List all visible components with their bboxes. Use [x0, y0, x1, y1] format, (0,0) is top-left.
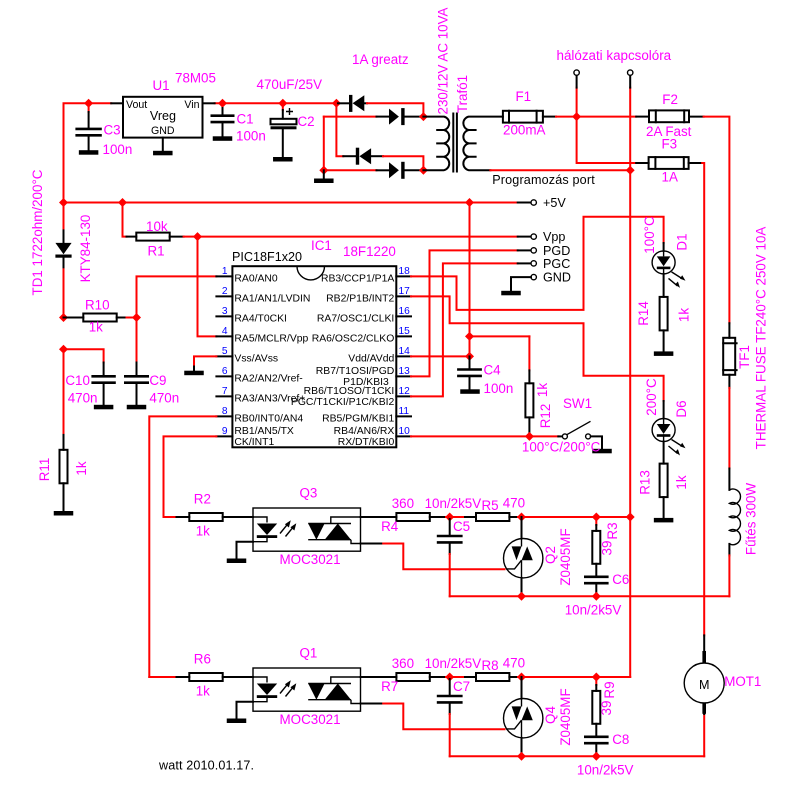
svg-text:R13: R13: [638, 470, 653, 495]
svg-text:RA1/AN1/LVDIN: RA1/AN1/LVDIN: [234, 293, 310, 304]
svg-text:11: 11: [399, 406, 410, 417]
wire R1 to Vpp terminal: [198, 236, 518, 238]
svg-text:RB5/PGM/KBI1: RB5/PGM/KBI1: [322, 413, 394, 424]
wire F1 output to junction: [556, 116, 577, 118]
junction C8 bottom: [592, 752, 601, 761]
resistor R6 1k: [149, 673, 253, 681]
resistor R12 1k: [525, 336, 533, 436]
junction C5 node: [445, 513, 454, 522]
ground for bridge: [314, 170, 334, 183]
junction bridge ground node: [319, 166, 328, 175]
svg-text:RA2/AN2/Vref-: RA2/AN2/Vref-: [234, 373, 302, 384]
svg-text:14: 14: [399, 346, 411, 357]
microcontroller IC1 PIC18F1220: [216, 250, 411, 448]
wire transformer primary bottom to mains node: [490, 169, 630, 171]
resistor R14 1k: [660, 274, 668, 352]
svg-text:1k: 1k: [535, 383, 550, 397]
svg-text:C2: C2: [298, 114, 315, 129]
svg-text:1k: 1k: [196, 684, 210, 699]
svg-text:D1: D1: [675, 233, 690, 250]
diode D5 of bridge (bottom row, anode left): [324, 162, 424, 179]
svg-text:RA0/AN0: RA0/AN0: [234, 273, 278, 284]
svg-text:13: 13: [399, 366, 411, 377]
svg-text:+5V: +5V: [543, 196, 566, 210]
svg-text:39: 39: [600, 541, 615, 556]
wire TF1 to heater coil: [728, 388, 730, 469]
svg-text:470: 470: [503, 656, 525, 671]
wire PGD terminal stub: [518, 249, 531, 251]
resistor R10 1k: [64, 314, 137, 322]
junction R1 branch: [118, 198, 127, 207]
svg-text:R2: R2: [194, 491, 211, 506]
junction F1 output node: [572, 112, 581, 121]
svg-text:470n: 470n: [68, 390, 98, 405]
svg-text:18F1220: 18F1220: [343, 244, 396, 259]
svg-text:18: 18: [399, 266, 411, 277]
svg-text:Z0405MF: Z0405MF: [558, 528, 573, 585]
resistor R7 360: [361, 673, 450, 681]
electrolytic capacitor C2: [271, 103, 297, 157]
terminal +5V: [518, 196, 567, 210]
ground for C3: [79, 150, 99, 155]
fuse F2: [636, 110, 703, 122]
fuse F1: [503, 111, 556, 123]
wire mains vertical down: [629, 170, 631, 677]
svg-text:TF1: TF1: [737, 345, 752, 369]
wire to SW1: [529, 435, 558, 437]
svg-text:R4: R4: [381, 519, 399, 534]
svg-text:1k: 1k: [89, 320, 103, 335]
ground for C9: [127, 405, 147, 410]
junction Q4 MT2 node: [517, 673, 526, 682]
resistor R11 1k: [60, 435, 68, 511]
svg-text:R9: R9: [602, 681, 617, 698]
wire heater to triac rail: [728, 555, 730, 596]
svg-text:9: 9: [222, 426, 228, 437]
svg-text:F3: F3: [662, 137, 678, 152]
wire motor return corner: [703, 714, 705, 756]
wire pin12 PGC net: [411, 263, 518, 396]
fuse F3: [636, 157, 702, 169]
heater coil Futes 300W: [729, 469, 740, 556]
svg-text:Programozás port: Programozás port: [492, 173, 595, 187]
junction Vdd pin14 node: [465, 352, 474, 361]
wire Q4 rail to mains corner: [518, 676, 630, 678]
wire F1 node down to F3: [577, 117, 637, 163]
svg-text:C5: C5: [453, 519, 470, 534]
svg-text:RX/DT/KBI0: RX/DT/KBI0: [338, 437, 395, 448]
svg-text:360: 360: [392, 656, 414, 671]
ground for Q3 LED: [227, 542, 253, 563]
ground for C4: [460, 389, 480, 394]
svg-text:6: 6: [222, 366, 228, 377]
svg-text:100°C: 100°C: [642, 216, 657, 254]
terminal circle halozati 2: [628, 70, 633, 75]
junction +5V vertical branch: [465, 198, 474, 207]
switch SW1: [558, 421, 602, 449]
svg-text:C6: C6: [612, 572, 629, 587]
svg-text:SW1: SW1: [563, 396, 592, 411]
svg-text:F2: F2: [662, 92, 678, 107]
wire stub U1 Vin pin: [203, 102, 215, 104]
svg-text:8: 8: [222, 406, 228, 417]
junction C7 node: [445, 673, 454, 682]
svg-text:C10: C10: [65, 373, 90, 388]
svg-text:Vss/AVss: Vss/AVss: [234, 353, 278, 364]
svg-text:MOC3021: MOC3021: [280, 712, 341, 727]
wire pin14 Vdd: [411, 355, 470, 357]
svg-text:PGC/T1CKI/P1C/KBI2: PGC/T1CKI/P1C/KBI2: [291, 397, 395, 408]
junction +5V to R12 branch: [465, 332, 474, 341]
svg-text:MOC3021: MOC3021: [280, 552, 341, 567]
wire stub U1 Vout pin: [111, 102, 123, 104]
svg-text:10n/2k5V: 10n/2k5V: [577, 763, 634, 778]
capacitor C7: [437, 677, 463, 756]
svg-text:RA4/T0CKI: RA4/T0CKI: [234, 313, 287, 324]
svg-text:1A: 1A: [662, 170, 678, 185]
wire R1 node to MCLR pin 4: [198, 237, 217, 337]
svg-text:16: 16: [399, 306, 411, 317]
svg-text:10: 10: [399, 426, 411, 437]
svg-text:RB7/T1OSI/PGD: RB7/T1OSI/PGD: [316, 366, 395, 377]
svg-text:RA5/MCLR/Vpp: RA5/MCLR/Vpp: [234, 333, 308, 344]
svg-text:15: 15: [399, 326, 411, 337]
svg-text:Trafó1: Trafó1: [455, 75, 470, 113]
wire pin10 RB4 to switch: [411, 435, 529, 437]
capacitor C10: [91, 363, 115, 405]
svg-text:RA6/OSC2/CLKO: RA6/OSC2/CLKO: [312, 333, 395, 344]
wire +5V bus: [64, 202, 518, 204]
junction Q2 MT1 bottom: [517, 592, 526, 601]
wire left rail to R11: [63, 349, 65, 435]
svg-text:10k: 10k: [146, 219, 168, 234]
svg-text:R11: R11: [37, 458, 52, 482]
motor MOT1: [684, 635, 724, 714]
transformer core: [453, 114, 457, 172]
resistor R9 39: [592, 677, 600, 736]
ground for C10: [94, 405, 114, 410]
svg-text:R12: R12: [538, 404, 553, 429]
svg-text:IC1: IC1: [311, 238, 332, 253]
wire PGC terminal stub: [518, 262, 531, 264]
svg-text:PGD: PGD: [543, 244, 570, 258]
svg-text:100n: 100n: [484, 381, 514, 396]
svg-text:hálózati kapcsolóra: hálózati kapcsolóra: [557, 48, 672, 63]
diode D2 of bridge (top row, cathode left): [338, 95, 367, 112]
wire pin18 RB3 to LED D1: [411, 217, 664, 310]
svg-text:C3: C3: [104, 123, 121, 138]
wire +12V top rail right segment: [215, 102, 337, 104]
svg-text:7: 7: [222, 386, 228, 397]
svg-text:Vout: Vout: [126, 99, 147, 111]
svg-text:RB2/P1B/INT2: RB2/P1B/INT2: [326, 293, 394, 304]
svg-text:4: 4: [222, 326, 228, 337]
junction R3 top: [592, 513, 601, 522]
voltage regulator U1 78M05: [123, 97, 203, 151]
svg-text:230/12V AC 10VA: 230/12V AC 10VA: [436, 7, 451, 114]
wire mains switch terminal 1: [576, 75, 578, 116]
svg-text:1k: 1k: [674, 475, 689, 489]
wire bridge left vertical: [336, 103, 343, 156]
svg-text:Z0405MF: Z0405MF: [558, 688, 573, 745]
svg-text:D6: D6: [674, 400, 689, 417]
resistor R8 470: [450, 673, 518, 681]
junction transformer secondary top: [419, 112, 428, 121]
resistor R2 1k: [164, 513, 254, 521]
junction transformer secondary bottom: [419, 166, 428, 175]
capacitor C1: [211, 103, 235, 136]
svg-text:10n/2k5V: 10n/2k5V: [425, 496, 482, 511]
svg-text:R1: R1: [148, 244, 165, 259]
wire Q1 triac gate: [361, 703, 384, 705]
wire Q3 triac gate: [361, 543, 384, 545]
wire diode third row to bottom junction: [383, 156, 423, 170]
resistor R5 470: [450, 513, 518, 521]
svg-text:CK/INT1: CK/INT1: [234, 437, 274, 448]
capacitor C8: [584, 737, 609, 757]
svg-text:Vreg: Vreg: [150, 109, 176, 123]
capacitor C9: [124, 363, 149, 405]
ground for R14: [654, 351, 674, 356]
optocoupler Q3 MOC3021: [253, 508, 361, 551]
LED D1: [652, 243, 685, 288]
svg-text:Vin: Vin: [184, 99, 199, 111]
junction R10 left: [59, 313, 68, 322]
svg-text:RB0/INT0/AN4: RB0/INT0/AN4: [234, 413, 303, 424]
terminal circle halozati 1: [574, 70, 579, 75]
junction C2 top: [278, 99, 287, 108]
wire +12V top rail left segment: [64, 103, 112, 202]
ground for C2: [273, 157, 293, 162]
junction Q2 MT2 node: [517, 513, 526, 522]
svg-text:470n: 470n: [149, 390, 179, 405]
ground for SW1: [592, 449, 612, 454]
wire mains switch terminal 2: [629, 75, 631, 170]
svg-text:RB3/CCP1/P1A: RB3/CCP1/P1A: [321, 273, 394, 284]
svg-text:470uF/25V: 470uF/25V: [257, 77, 323, 92]
wire triac rail to mains: [518, 516, 630, 518]
diode TD1 temperature sensor: [55, 203, 71, 270]
ground for U1: [153, 151, 173, 156]
svg-text:R8: R8: [482, 658, 499, 673]
wire pin17 RB2 to LED D6: [411, 296, 664, 401]
junction C1 top: [218, 99, 227, 108]
junction R12 switch node: [525, 432, 534, 441]
svg-text:C4: C4: [484, 363, 502, 378]
svg-text:GND: GND: [543, 271, 571, 285]
svg-text:Q4: Q4: [543, 706, 558, 724]
svg-text:12: 12: [399, 386, 411, 397]
resistor R3 39: [592, 517, 600, 576]
svg-text:PGC: PGC: [543, 257, 570, 271]
ground for pin5: [184, 367, 204, 376]
optocoupler Q1 MOC3021: [253, 668, 361, 711]
junction +5V rail left: [59, 198, 68, 207]
svg-text:100°C/200°C: 100°C/200°C: [522, 440, 601, 455]
svg-text:360: 360: [392, 496, 414, 511]
wire F3 output down to motor: [702, 163, 704, 635]
wire junction to F2: [577, 116, 637, 118]
svg-text:KTY84-130: KTY84-130: [78, 215, 93, 283]
wire diode top row to transformer junction: [367, 103, 423, 116]
junction C10 branch: [59, 345, 68, 354]
resistor R13 1k: [660, 442, 668, 518]
wire branch to R12: [470, 335, 530, 337]
wire pin1 net to C9 and R10: [137, 276, 217, 362]
wire TD1 to R10 node: [63, 269, 65, 317]
svg-text:Q3: Q3: [300, 486, 318, 501]
junction C3 top: [84, 99, 93, 108]
svg-text:Vdd/AVdd: Vdd/AVdd: [348, 353, 394, 364]
capacitor C6: [584, 577, 609, 597]
triac Q2 Z0405MF: [504, 517, 543, 596]
terminal Vpp: [531, 230, 565, 244]
svg-text:MOT1: MOT1: [724, 674, 761, 689]
svg-text:Q1: Q1: [300, 646, 318, 661]
ground for Q1 LED: [227, 702, 253, 723]
junction Q4 MT1 bottom: [517, 752, 526, 761]
terminal PGC: [531, 257, 570, 271]
resistor R1 10k: [123, 203, 198, 241]
svg-text:watt 2010.01.17.: watt 2010.01.17.: [158, 759, 254, 773]
wire pin9 RB1 to R2: [164, 436, 217, 517]
junction R9 top: [592, 673, 601, 682]
svg-text:R3: R3: [605, 522, 620, 539]
svg-text:3: 3: [222, 306, 228, 317]
svg-text:M: M: [699, 678, 710, 692]
junction mains crossing Q2 rail: [626, 513, 635, 522]
svg-text:RB4/AN6/RX: RB4/AN6/RX: [334, 426, 395, 437]
svg-text:PIC18F1x20: PIC18F1x20: [232, 250, 302, 264]
svg-text:GND: GND: [151, 125, 175, 137]
svg-text:R6: R6: [194, 651, 211, 666]
svg-text:Fűtés 300W: Fűtés 300W: [744, 483, 759, 556]
terminal PGD: [531, 244, 570, 258]
resistor R4 360: [361, 513, 450, 521]
ground for R11: [54, 511, 74, 516]
svg-text:100n: 100n: [103, 142, 133, 157]
LED D6: [652, 401, 685, 456]
svg-text:C9: C9: [149, 373, 166, 388]
capacitor C5: [437, 517, 463, 596]
svg-text:470: 470: [503, 496, 525, 511]
svg-text:5: 5: [222, 346, 228, 357]
svg-text:39: 39: [599, 701, 614, 716]
svg-text:U1: U1: [153, 78, 170, 93]
junction mains bottom node: [626, 166, 635, 175]
svg-text:1k: 1k: [196, 524, 210, 539]
wire pin13 PGD net: [411, 250, 518, 376]
svg-text:R14: R14: [636, 301, 651, 326]
svg-text:78M05: 78M05: [175, 71, 216, 86]
transformer Trafo1 secondary winding: [423, 117, 449, 171]
svg-text:C1: C1: [237, 112, 254, 127]
transformer Trafo1 primary winding: [463, 117, 503, 171]
svg-text:1k: 1k: [677, 308, 692, 322]
svg-text:C8: C8: [612, 732, 629, 747]
svg-text:F1: F1: [516, 89, 532, 104]
junction R10 right: [132, 313, 141, 322]
wire bridge second vertical: [323, 117, 325, 171]
wire to C10: [64, 349, 104, 362]
svg-text:RA7/OSC1/CLKI: RA7/OSC1/CLKI: [317, 313, 394, 324]
svg-text:THERMAL FUSE TF240°C 250V 10A: THERMAL FUSE TF240°C 250V 10A: [754, 227, 769, 450]
junction R1 output: [193, 232, 202, 241]
svg-text:1A greatz: 1A greatz: [352, 52, 409, 67]
wire +5V vertical: [469, 203, 471, 357]
svg-text:2: 2: [222, 286, 228, 297]
svg-text:R5: R5: [482, 498, 499, 513]
svg-text:R10: R10: [85, 298, 110, 313]
terminal GND with ground symbol: [501, 271, 571, 296]
svg-text:RB6/T1OSO/T1CKI: RB6/T1OSO/T1CKI: [304, 386, 395, 397]
svg-text:200mA: 200mA: [503, 123, 545, 138]
wire Q2 snubber bottom rail: [450, 595, 730, 597]
wire pin5 Vss to ground: [194, 356, 216, 366]
svg-text:100n: 100n: [236, 129, 266, 144]
capacitor C4: [457, 356, 482, 389]
diode D3 of bridge (second row, anode left): [324, 108, 424, 125]
svg-text:C7: C7: [453, 679, 470, 694]
svg-text:200°C: 200°C: [644, 378, 659, 416]
wire pin8 RB0 to R6: [149, 416, 216, 677]
svg-text:RB1/AN5/TX: RB1/AN5/TX: [234, 426, 294, 437]
wire F2 output to TF1: [704, 117, 730, 324]
svg-text:Q2: Q2: [543, 546, 558, 564]
capacitor C3: [75, 103, 101, 150]
junction bridge input top: [332, 99, 341, 108]
svg-text:Vpp: Vpp: [543, 230, 565, 244]
svg-text:1: 1: [222, 266, 228, 277]
svg-text:10n/2k5V: 10n/2k5V: [565, 603, 622, 618]
svg-text:TD1 1722ohm/200°C: TD1 1722ohm/200°C: [30, 169, 45, 295]
svg-text:17: 17: [399, 286, 411, 297]
ground for C1: [213, 136, 233, 141]
thermal fuse TF1: [723, 323, 736, 388]
svg-text:10n/2k5V: 10n/2k5V: [425, 656, 482, 671]
wire Q4 snubber bottom rail: [450, 755, 705, 757]
junction C6 bottom: [592, 592, 601, 601]
svg-text:R7: R7: [381, 679, 398, 694]
ground for R13: [654, 518, 674, 523]
triac Q4 Z0405MF: [504, 677, 543, 756]
svg-text:1k: 1k: [74, 461, 89, 475]
diode D4 of bridge (third row, cathode left): [343, 148, 383, 165]
wire Vpp terminal stub: [518, 236, 531, 238]
